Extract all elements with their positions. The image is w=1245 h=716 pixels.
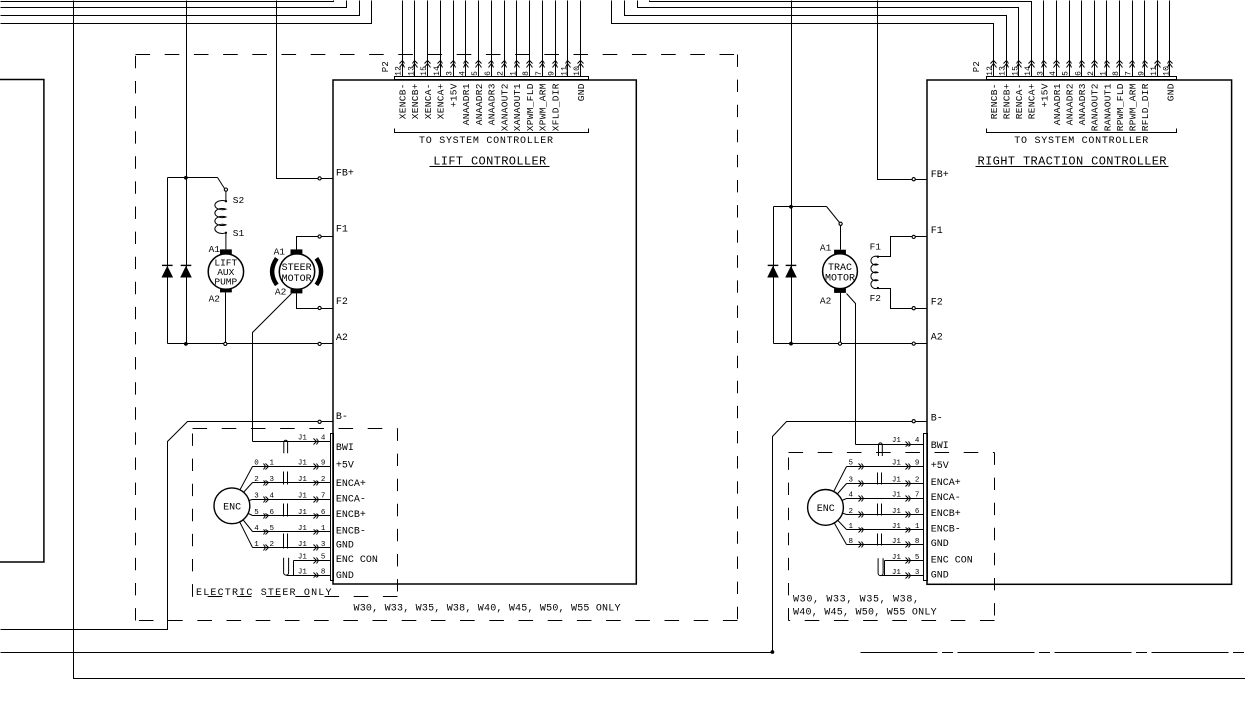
svg-text:J1: J1 (298, 541, 308, 549)
svg-text:ENCB+: ENCB+ (336, 510, 366, 521)
svg-text:6: 6 (1074, 71, 1083, 76)
svg-text:4: 4 (1049, 71, 1058, 76)
svg-text:J1: J1 (298, 525, 308, 533)
svg-text:A2: A2 (209, 293, 221, 304)
svg-text:A2: A2 (275, 286, 287, 297)
svg-text:ANAADR3: ANAADR3 (1077, 83, 1088, 125)
svg-text:ELECTRIC STEER ONLY: ELECTRIC STEER ONLY (196, 588, 332, 599)
svg-text:ENC: ENC (817, 504, 835, 515)
svg-text:1: 1 (849, 523, 854, 531)
svg-text:11: 11 (1150, 66, 1159, 76)
svg-text:GND: GND (1165, 83, 1176, 101)
svg-text:13: 13 (999, 66, 1008, 76)
svg-text:J1: J1 (892, 538, 902, 546)
svg-text:PUMP: PUMP (214, 276, 237, 287)
svg-text:15: 15 (420, 66, 429, 76)
svg-text:ENCA+: ENCA+ (931, 478, 961, 489)
svg-text:11: 11 (560, 66, 569, 76)
svg-text:S1: S1 (233, 228, 245, 239)
svg-text:9: 9 (321, 460, 326, 468)
svg-text:8: 8 (522, 71, 531, 76)
svg-text:RENCB-: RENCB- (989, 83, 1000, 119)
svg-text:2: 2 (254, 476, 259, 484)
svg-text:XENCB-: XENCB- (397, 83, 408, 119)
svg-text:A2: A2 (931, 332, 943, 343)
svg-text:5: 5 (849, 460, 854, 468)
svg-text:3: 3 (321, 541, 326, 549)
svg-text:BWI: BWI (336, 443, 354, 454)
svg-text:2: 2 (849, 508, 854, 516)
svg-text:RPWM_FLD: RPWM_FLD (1115, 83, 1126, 131)
svg-text:RANAOUT1: RANAOUT1 (1102, 83, 1113, 131)
svg-text:J1: J1 (892, 460, 902, 468)
svg-text:4: 4 (254, 525, 259, 533)
svg-text:4: 4 (270, 493, 275, 501)
svg-text:6: 6 (915, 508, 920, 516)
svg-text:J1: J1 (892, 437, 902, 445)
svg-text:3: 3 (254, 493, 259, 501)
svg-text:ANAADR1: ANAADR1 (461, 83, 472, 125)
svg-text:9: 9 (915, 460, 920, 468)
svg-text:F2: F2 (931, 298, 943, 309)
svg-text:RANAOUT2: RANAOUT2 (1090, 83, 1101, 131)
svg-text:TRAC: TRAC (828, 263, 852, 274)
svg-text:ENCB-: ENCB- (336, 526, 366, 537)
svg-text:5: 5 (270, 525, 275, 533)
svg-text:1: 1 (1100, 71, 1109, 76)
svg-text:1: 1 (270, 460, 275, 468)
svg-text:GND: GND (931, 570, 949, 581)
svg-text:FB+: FB+ (931, 170, 949, 181)
svg-text:W30, W33, W35, W38, W40, W45,: W30, W33, W35, W38, W40, W45, W50, W55 O… (354, 603, 621, 614)
svg-text:7: 7 (1125, 71, 1134, 76)
svg-text:A1: A1 (209, 244, 221, 255)
svg-text:W40, W45, W50, W55 ONLY: W40, W45, W50, W55 ONLY (793, 608, 937, 619)
svg-text:3: 3 (849, 477, 854, 485)
svg-text:RPWM_ARM: RPWM_ARM (1128, 83, 1139, 131)
svg-text:F1: F1 (931, 226, 943, 237)
svg-text:2: 2 (270, 541, 275, 549)
svg-text:B-: B- (336, 412, 348, 423)
svg-text:W30, W33, W35, W38,: W30, W33, W35, W38, (793, 595, 919, 606)
svg-text:7: 7 (321, 493, 326, 501)
svg-text:14: 14 (433, 66, 442, 76)
svg-text:ENCA+: ENCA+ (336, 479, 366, 490)
svg-text:J1: J1 (892, 477, 902, 485)
svg-text:+5V: +5V (336, 461, 354, 472)
svg-text:3: 3 (915, 569, 920, 577)
svg-text:3: 3 (270, 476, 275, 484)
svg-text:BWI: BWI (931, 441, 949, 452)
svg-text:8: 8 (321, 568, 326, 576)
svg-text:14: 14 (1024, 66, 1033, 76)
svg-text:RENCA-: RENCA- (1014, 83, 1025, 119)
svg-text:6: 6 (321, 509, 326, 517)
svg-text:ANAADR2: ANAADR2 (1065, 83, 1076, 125)
svg-text:ANAADR3: ANAADR3 (487, 83, 498, 125)
svg-text:ENCA-: ENCA- (336, 495, 366, 506)
svg-text:GND: GND (931, 539, 949, 550)
svg-text:J1: J1 (298, 568, 308, 576)
svg-text:J1: J1 (298, 493, 308, 501)
svg-text:3: 3 (1037, 71, 1046, 76)
svg-text:P2: P2 (972, 61, 982, 72)
svg-text:2: 2 (915, 477, 920, 485)
svg-text:J1: J1 (298, 509, 308, 517)
svg-text:XPWM_FLD: XPWM_FLD (525, 83, 536, 131)
svg-text:XENCB+: XENCB+ (410, 83, 421, 119)
svg-text:F1: F1 (336, 225, 348, 236)
svg-text:F2: F2 (870, 293, 882, 304)
svg-text:GND: GND (576, 83, 587, 101)
svg-text:10: 10 (1163, 66, 1172, 76)
svg-text:J1: J1 (298, 435, 308, 443)
svg-text:10: 10 (573, 66, 582, 76)
svg-text:9: 9 (1137, 71, 1146, 76)
svg-text:ENCA-: ENCA- (931, 493, 961, 504)
svg-text:ANAADR2: ANAADR2 (474, 83, 485, 125)
svg-text:9: 9 (548, 71, 557, 76)
svg-text:GND: GND (336, 571, 354, 582)
svg-text:XANAOUT2: XANAOUT2 (499, 83, 510, 131)
svg-text:12: 12 (395, 66, 404, 76)
svg-text:A2: A2 (820, 295, 832, 306)
svg-text:B-: B- (931, 414, 943, 425)
svg-text:4: 4 (458, 71, 467, 76)
svg-text:XENCA-: XENCA- (423, 83, 434, 119)
svg-text:+15V: +15V (448, 83, 459, 107)
svg-text:ENC CON: ENC CON (336, 555, 378, 566)
svg-text:GND: GND (336, 541, 354, 552)
svg-text:8: 8 (915, 538, 920, 546)
svg-text:1: 1 (509, 71, 518, 76)
svg-text:7: 7 (915, 492, 920, 500)
svg-text:TO SYSTEM CONTROLLER: TO SYSTEM CONTROLLER (1014, 136, 1148, 147)
svg-text:F1: F1 (870, 242, 882, 253)
svg-text:F2: F2 (336, 297, 348, 308)
svg-text:ENC: ENC (223, 502, 241, 513)
svg-text:4: 4 (321, 435, 326, 443)
svg-text:P2: P2 (381, 61, 391, 72)
svg-text:J1: J1 (892, 492, 902, 500)
svg-text:A1: A1 (820, 243, 832, 254)
svg-text:ANAADR1: ANAADR1 (1052, 83, 1063, 125)
svg-text:7: 7 (535, 71, 544, 76)
svg-text:2: 2 (321, 476, 326, 484)
svg-text:4: 4 (849, 492, 854, 500)
svg-text:RENCA+: RENCA+ (1027, 83, 1038, 119)
svg-text:8: 8 (1112, 71, 1121, 76)
svg-text:ENC CON: ENC CON (931, 555, 973, 566)
svg-text:1: 1 (915, 523, 920, 531)
svg-text:MOTOR: MOTOR (825, 273, 855, 284)
svg-text:5: 5 (471, 71, 480, 76)
svg-text:J1: J1 (298, 460, 308, 468)
svg-text:STEER: STEER (282, 263, 312, 274)
svg-text:LIFT CONTROLLER: LIFT CONTROLLER (433, 155, 546, 169)
svg-text:XPWM_ARM: XPWM_ARM (538, 83, 549, 131)
svg-text:FB+: FB+ (336, 168, 354, 179)
svg-text:J1: J1 (298, 554, 308, 562)
svg-text:RENCB+: RENCB+ (1002, 83, 1013, 119)
svg-text:TO SYSTEM CONTROLLER: TO SYSTEM CONTROLLER (419, 136, 553, 147)
svg-text:5: 5 (915, 554, 920, 562)
svg-text:XENCA+: XENCA+ (436, 83, 447, 119)
svg-text:2: 2 (1087, 71, 1096, 76)
svg-text:RIGHT TRACTION CONTROLLER: RIGHT TRACTION CONTROLLER (978, 155, 1167, 169)
svg-text:4: 4 (915, 437, 920, 445)
svg-text:+5V: +5V (931, 461, 949, 472)
svg-text:0: 0 (254, 460, 259, 468)
svg-text:13: 13 (407, 66, 416, 76)
svg-text:J1: J1 (892, 554, 902, 562)
svg-text:J1: J1 (892, 508, 902, 516)
svg-text:6: 6 (484, 71, 493, 76)
svg-text:A1: A1 (274, 246, 286, 257)
svg-text:A2: A2 (336, 333, 348, 344)
svg-text:XANAOUT1: XANAOUT1 (512, 83, 523, 131)
svg-text:1: 1 (254, 541, 259, 549)
svg-text:6: 6 (270, 509, 275, 517)
svg-text:3: 3 (446, 71, 455, 76)
svg-text:RFLD_DIR: RFLD_DIR (1140, 83, 1151, 131)
svg-text:5: 5 (254, 509, 259, 517)
svg-text:1: 1 (321, 525, 326, 533)
svg-text:2: 2 (497, 71, 506, 76)
svg-text:5: 5 (321, 554, 326, 562)
svg-text:8: 8 (849, 538, 854, 546)
svg-text:J1: J1 (298, 476, 308, 484)
svg-text:5: 5 (1062, 71, 1071, 76)
svg-text:ENCB-: ENCB- (931, 524, 961, 535)
svg-text:15: 15 (1011, 66, 1020, 76)
svg-text:ENCB+: ENCB+ (931, 509, 961, 520)
svg-text:12: 12 (986, 66, 995, 76)
svg-text:XFLD_DIR: XFLD_DIR (550, 83, 561, 131)
svg-text:J1: J1 (892, 523, 902, 531)
svg-text:S2: S2 (233, 195, 245, 206)
svg-text:J1: J1 (892, 569, 902, 577)
svg-text:+15V: +15V (1039, 83, 1050, 107)
svg-text:MOTOR: MOTOR (282, 274, 312, 285)
